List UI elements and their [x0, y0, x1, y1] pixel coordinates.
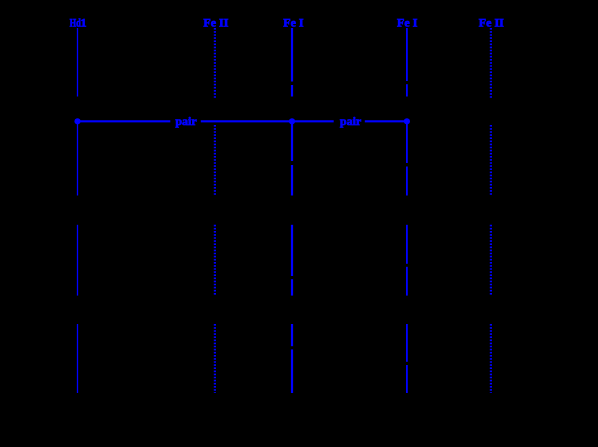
svg-text:Fe II: Fe II — [203, 15, 228, 29]
lifeline Fe II (second, dotted) segment 3 — [490, 225, 492, 296]
lifeline Fe I (second) segment 3a — [406, 225, 408, 264]
lifeline Hd1 segment 3 — [77, 225, 79, 296]
lifeline Fe I segment 1b — [291, 85, 293, 97]
lifeline Hd1 segment 4 — [77, 324, 79, 393]
junction dot on Hd1 — [74, 118, 80, 124]
svg-text:pair: pair — [340, 114, 362, 128]
lifeline Fe II (dotted) segment 3 — [214, 225, 216, 296]
junction dot on Fe I (second) — [404, 118, 410, 124]
lifeline Hd1 segment 2 — [77, 121, 79, 196]
svg-text:pair: pair — [175, 114, 197, 128]
lifeline Fe I segment 4a — [291, 324, 293, 346]
lifeline Fe I segment 4b — [291, 349, 293, 393]
lifeline Fe II (second, dotted) segment 1 — [490, 28, 492, 98]
lifeline Fe II (dotted) segment 4 — [214, 324, 216, 393]
svg-text:1: 1 — [81, 15, 87, 29]
lifeline Fe I (second) segment 2a — [406, 121, 408, 163]
pair edge 1 left segment — [78, 120, 170, 122]
pair edge 2 right segment — [365, 120, 407, 122]
lifeline Fe I (second) segment 4a — [406, 324, 408, 362]
lifeline Fe I segment 2a — [291, 121, 293, 161]
svg-text:Fe I: Fe I — [397, 15, 418, 29]
lifeline Fe I (second) segment 1a — [406, 28, 408, 81]
svg-text:Fe I: Fe I — [283, 15, 304, 29]
pair edge 1 right segment — [201, 120, 292, 122]
lifeline Fe II (second, dotted) segment 2 — [490, 125, 492, 196]
junction dot on Fe I — [289, 118, 295, 124]
lifeline Fe I segment 3a — [291, 225, 293, 276]
lifeline Fe II (dotted) segment 1 — [214, 28, 216, 98]
lifeline Fe II (dotted) segment 2 — [214, 125, 216, 196]
lifeline Fe I (second) segment 3b — [406, 267, 408, 296]
lifeline Fe I segment 3b — [291, 279, 293, 295]
lifeline Fe I segment 2b — [291, 165, 293, 196]
lifeline Fe I (second) segment 2b — [406, 167, 408, 196]
svg-text:Hd: Hd — [70, 17, 81, 30]
lifeline Hd1 segment 1 — [77, 28, 79, 97]
lifeline Fe II (second, dotted) segment 4 — [490, 324, 492, 393]
lifeline Fe I segment 1a — [291, 28, 293, 82]
svg-text:Fe II: Fe II — [479, 15, 504, 29]
lifeline Fe I (second) segment 4b — [406, 365, 408, 393]
pair edge 2 left segment — [292, 120, 334, 122]
lifeline Fe I (second) segment 1b — [406, 84, 408, 96]
